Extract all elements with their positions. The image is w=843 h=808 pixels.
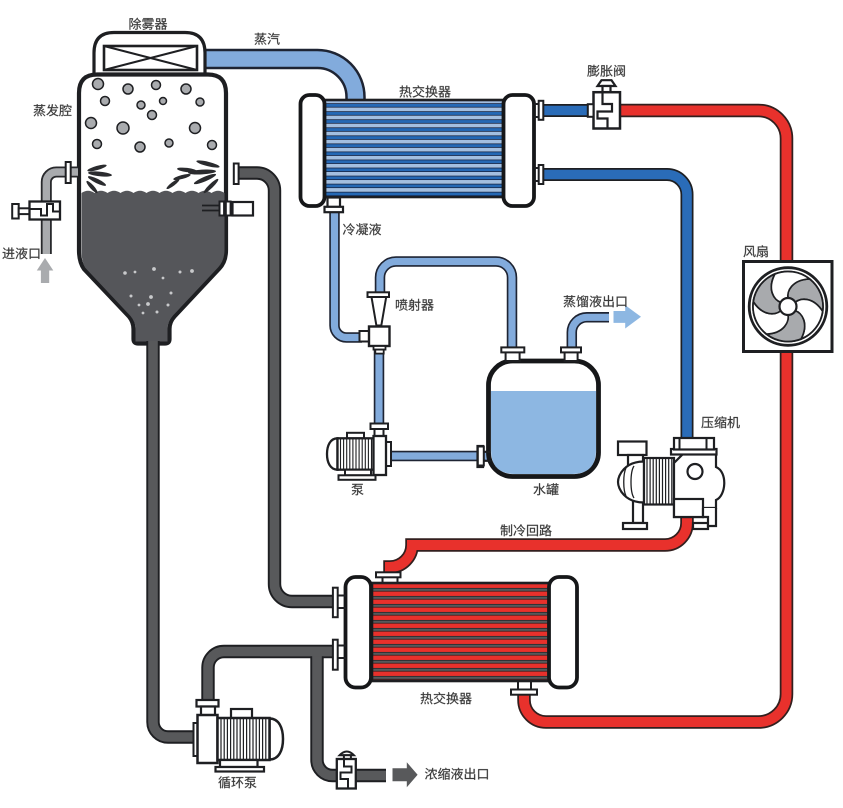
heat exchanger E1 lower-right port [534, 168, 540, 181]
spray nozzle left [85, 163, 112, 194]
water tank right nozzle [565, 351, 578, 361]
label circulation pump [218, 776, 256, 788]
spray nozzle right [165, 159, 220, 194]
circulation pump P2 [194, 700, 284, 772]
tank right outlet flange [234, 164, 239, 185]
ejector [360, 292, 390, 353]
demister mesh box [104, 46, 197, 70]
label pump P1 [352, 484, 364, 495]
tank liquid [82, 191, 225, 342]
expansion valve body [594, 92, 621, 128]
tank funnel droplets [123, 267, 194, 314]
label feed inlet [2, 247, 39, 259]
concentrate valve cap [340, 751, 355, 755]
wire HX-to-expansion-valve pipe [542, 104, 596, 117]
label water tank [534, 483, 559, 495]
label heat exchanger E2 [421, 692, 472, 704]
wire ejector-to-tank pipe [380, 262, 512, 351]
pump outlet flange [478, 446, 484, 467]
label demister [130, 18, 168, 30]
wire distillate pipe [572, 317, 609, 350]
water tank left nozzle [506, 351, 520, 361]
heat exchanger E2 top port [383, 577, 398, 583]
fan housing [744, 262, 833, 352]
concentrate valve body [337, 759, 356, 789]
pump P1 [327, 424, 391, 480]
wire condensate pipe [335, 210, 363, 338]
heat exchanger E1 drain stub [328, 198, 341, 208]
heat exchanger E2 bottom port [518, 682, 531, 689]
wire evaporator-to-HX pipe [238, 173, 334, 602]
label steam [255, 33, 280, 45]
label compressor [701, 416, 739, 428]
heat exchanger E1 body [324, 100, 504, 197]
distillate outlet arrow [614, 305, 642, 328]
label fan [744, 245, 768, 257]
compressor body [618, 442, 674, 530]
water tank liquid [491, 391, 596, 474]
feed inlet flange [66, 162, 71, 183]
wire pump-riser pipe [208, 652, 334, 711]
demister shell [94, 33, 205, 77]
label heat exchanger E1 [400, 85, 451, 97]
label distillate outlet [564, 295, 627, 307]
water tank body [489, 361, 599, 477]
wire compressor-to-HX pipe [390, 514, 687, 574]
heat exchanger E2 upper-left port [338, 596, 346, 609]
label refrigeration loop [501, 524, 552, 536]
heat exchanger E2 lower-left port [338, 646, 346, 659]
expansion valve cap [598, 80, 616, 86]
feed inlet valve V1 [12, 204, 19, 219]
wire ejector-to-pump pipe [374, 350, 385, 428]
label concentrate outlet [425, 768, 488, 780]
wire steam pipe [203, 59, 356, 108]
label evaporation chamber [34, 104, 72, 116]
concentrate outlet arrow [393, 762, 418, 787]
wire tank-drop pipe [153, 341, 198, 737]
heat exchanger E1 right cap [504, 95, 535, 206]
label ejector [396, 299, 434, 311]
label condensate [343, 223, 381, 235]
tank vapor bubbles [86, 79, 217, 153]
level sensor [202, 206, 221, 211]
heat exchanger E2 right cap [549, 577, 577, 688]
wire refrigerant hot pipe [524, 111, 787, 723]
heat exchanger E2 left cap [346, 577, 372, 688]
feed inlet arrow [37, 258, 54, 283]
heat exchanger E2 body [372, 583, 550, 681]
wire pump-to-tank pipe [390, 451, 490, 462]
fan blades [753, 272, 823, 342]
compressor ribs [647, 459, 672, 504]
fan hub [780, 298, 797, 315]
wire HX-to-compressor pipe [542, 175, 687, 441]
label expansion valve [587, 65, 625, 77]
heat exchanger E1 upper-right port [534, 104, 540, 117]
evaporator tank body [79, 75, 226, 344]
heat exchanger E1 left cap [301, 95, 325, 206]
fan rim [749, 268, 827, 346]
wire feed inlet pipe [46, 172, 78, 254]
wire concentrate tee pipe [317, 651, 386, 776]
water tank inlet flange [478, 447, 484, 466]
wire tee junction patch [260, 647, 334, 657]
